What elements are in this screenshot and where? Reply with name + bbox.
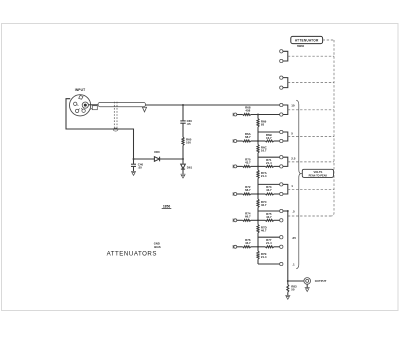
linkage dashed: [288, 82, 334, 84]
svg-text:68.7: 68.7: [245, 188, 251, 192]
linkage dashed: [288, 188, 334, 190]
wiper bracket: [283, 184, 288, 194]
resistor R7D shunt: [257, 225, 259, 234]
wire R71 to contact: [274, 165, 280, 167]
svg-text:66.7: 66.7: [245, 214, 251, 218]
resistor R77 tap: [265, 246, 274, 248]
box ATTENUATOR: [291, 36, 323, 43]
wire R83 to ground: [287, 292, 289, 295]
ground OUTPUT: [305, 288, 310, 292]
svg-text:43.7: 43.7: [266, 188, 272, 192]
box VOLTS PEAK-TO-PEAK: [301, 173, 303, 175]
wire shell ground loop: [66, 99, 134, 159]
resistor R76: [237, 246, 243, 248]
resistor R6A: [237, 140, 243, 142]
linkage dashed: [288, 55, 334, 57]
wire tap branch to upper contact: [258, 210, 280, 212]
wire C40 to ground: [133, 167, 135, 172]
resistor R69 shunt: [257, 119, 259, 128]
resistor R7E shunt: [257, 251, 259, 259]
connector J1 key notch: [79, 95, 83, 99]
terminal input R6A row: [233, 139, 237, 143]
svg-text:.25: .25: [292, 236, 297, 240]
coax shield tube: [98, 102, 146, 106]
wire R77 to contact: [274, 246, 280, 248]
wire output bus: [287, 211, 289, 281]
resistor R74: [237, 219, 243, 221]
wire R60 to node: [182, 146, 184, 160]
resistor R71 tap: [265, 165, 274, 167]
wire D61 to ground: [182, 169, 184, 174]
linkage dashed .5: [288, 215, 332, 217]
wire pin to shield: [88, 104, 98, 106]
wire R68 to contact: [251, 114, 280, 116]
switch contact lower: [280, 86, 283, 89]
wire ladder bottom to contact: [258, 263, 280, 265]
connector J1 center pin: [82, 102, 88, 108]
svg-text:.1: .1: [292, 262, 295, 266]
resistor R7A shunt: [257, 170, 259, 179]
svg-text:1856: 1856: [163, 204, 171, 208]
resistor R75 tap: [265, 219, 274, 221]
svg-text:VOLTS: VOLTS: [314, 170, 323, 174]
svg-text:.05: .05: [187, 122, 191, 126]
resistor R70: [237, 165, 243, 167]
resistor R73 tap: [265, 193, 274, 195]
svg-text:16.7: 16.7: [261, 149, 267, 153]
connector J1 pin 2: [74, 102, 77, 105]
switch contact lower: [280, 59, 283, 62]
wire C60 to R60: [182, 123, 184, 137]
resistor R83: [287, 281, 289, 285]
wire R74 to tap resistor: [251, 219, 265, 221]
wire R70 to tap resistor: [251, 165, 265, 167]
svg-text:GND: GND: [154, 241, 160, 245]
svg-text:21.4: 21.4: [261, 255, 267, 259]
switch contact .25 upper: [280, 236, 283, 239]
wire R76 to tap resistor: [251, 246, 265, 248]
svg-text:16.7: 16.7: [266, 136, 272, 140]
svg-text:ATTENUATORS: ATTENUATORS: [107, 250, 157, 257]
wire R72 to tap resistor: [251, 193, 265, 195]
resistor R60: [182, 137, 184, 146]
svg-text:100: 100: [186, 141, 191, 145]
terminal input R76 row: [233, 245, 237, 249]
resistor R7C shunt: [257, 199, 259, 208]
svg-text:PEAK-TO-PEAK: PEAK-TO-PEAK: [309, 175, 328, 178]
switch contact .1: [280, 262, 283, 265]
wiper bracket: [283, 51, 288, 61]
svg-text:43.7: 43.7: [245, 241, 251, 245]
resistor R68: [237, 114, 243, 116]
node C40 junction: [133, 158, 135, 160]
terminal input R74 row: [233, 219, 237, 223]
connector J1 pin 4: [82, 109, 85, 112]
terminal input R68 row: [233, 113, 237, 117]
svg-text:21.4: 21.4: [261, 174, 267, 178]
svg-text:458: 458: [245, 109, 250, 113]
terminal input R70 row: [233, 165, 237, 169]
wire main signal: [146, 104, 280, 106]
svg-text:OUTPUT: OUTPUT: [315, 279, 327, 283]
wire R73 to contact: [274, 193, 280, 195]
switch contact .25 lower: [280, 245, 283, 248]
svg-text:D60: D60: [154, 150, 160, 154]
svg-text:43.7: 43.7: [245, 161, 251, 165]
ground R83: [285, 295, 290, 299]
wire tap branch to upper contact: [258, 236, 280, 238]
wire tap branch to upper contact: [258, 131, 280, 133]
switch contact pair 10 upper: [280, 103, 283, 106]
node output bus top: [287, 210, 289, 212]
wire tap branch to upper contact: [258, 156, 280, 158]
svg-text:.5: .5: [292, 210, 295, 214]
switch contact pair 5 upper: [280, 130, 283, 133]
brace volts group: [296, 100, 301, 269]
terminal input R72 row: [233, 192, 237, 196]
node output: [287, 280, 289, 282]
cable clamp: [92, 106, 97, 110]
switch contact lower: [280, 139, 283, 142]
wire node to C60: [182, 105, 184, 121]
resistor R6C shunt: [257, 145, 259, 154]
svg-text:43.7: 43.7: [266, 215, 272, 219]
switch contact pair 2.5 upper: [280, 156, 283, 159]
svg-text:21.4: 21.4: [266, 241, 272, 245]
switch contact pair 1 upper: [280, 183, 283, 186]
node diode junction: [182, 158, 184, 160]
linkage dashed box to shaft: [323, 39, 334, 41]
wire tap branch to upper contact: [258, 183, 280, 185]
svg-text:2.5: 2.5: [291, 157, 296, 161]
svg-text:ATTENUATOR: ATTENUATOR: [295, 39, 319, 43]
wiper bracket: [283, 132, 288, 141]
connector OUTPUT: [304, 278, 311, 285]
svg-text:68.7: 68.7: [245, 135, 251, 139]
linkage shaft dashed: [331, 40, 334, 216]
switch contact lower: [280, 192, 283, 195]
svg-text:INPUT: INPUT: [75, 88, 85, 92]
wire ground loop to D60: [134, 158, 155, 160]
svg-text:10: 10: [291, 103, 295, 107]
node main-C60: [182, 104, 184, 106]
svg-text:46.7: 46.7: [261, 229, 267, 233]
connector J1 pin 3: [75, 109, 78, 112]
linkage dashed: [288, 136, 334, 138]
switch contact lower: [280, 113, 283, 116]
capacitor C60: [180, 121, 185, 123]
wire D60 to node: [160, 158, 183, 160]
linkage dashed: [288, 109, 334, 111]
diode D60: [154, 157, 159, 162]
svg-text:21.4: 21.4: [266, 161, 272, 165]
switch contact lower: [280, 165, 283, 168]
switch contact pair upper: [280, 76, 283, 79]
wire R6B to contact: [274, 140, 280, 142]
switch contact .5 lower: [280, 219, 283, 222]
ground shield right end: [142, 107, 146, 112]
svg-text:SW60: SW60: [297, 44, 305, 48]
ground C40: [131, 172, 136, 176]
svg-text:D61: D61: [187, 165, 193, 169]
svg-text:93: 93: [261, 123, 265, 127]
svg-text:.05: .05: [138, 165, 142, 169]
switch contact .5 upper: [280, 209, 283, 212]
linkage dashed: [288, 161, 334, 163]
resistor R6B tap: [265, 140, 274, 142]
svg-text:46.7: 46.7: [261, 203, 267, 207]
wire to output jack: [288, 280, 304, 282]
wire R75 to contact: [274, 219, 280, 221]
svg-text:50: 50: [291, 287, 295, 291]
switch contact pair upper: [280, 50, 283, 53]
capacitor C40: [133, 159, 135, 164]
diode D61: [182, 159, 184, 164]
svg-text:BIAS: BIAS: [154, 245, 161, 249]
connector J1 pin ticks: [77, 105, 83, 110]
wire jack to ground: [306, 284, 308, 287]
wire contact to output bus: [283, 210, 288, 212]
wiper bracket: [283, 157, 288, 166]
wiper bracket: [283, 78, 288, 88]
shield drop dashed: [113, 102, 115, 129]
wiper bracket: [283, 105, 288, 115]
ladder vertical bus wire: [257, 115, 259, 119]
ground D61: [181, 174, 186, 178]
wire R6A to tap resistor: [251, 140, 265, 142]
resistor R72: [237, 193, 243, 195]
connector J1 INPUT shell: [70, 95, 91, 116]
